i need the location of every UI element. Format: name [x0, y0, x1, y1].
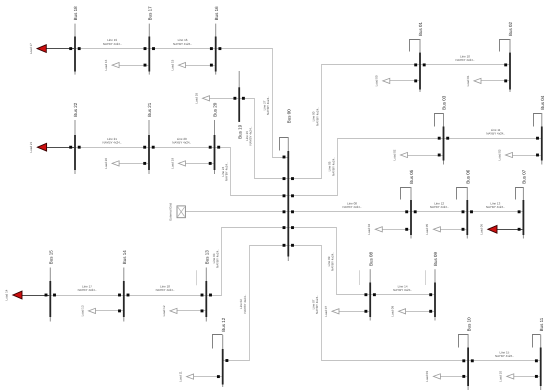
- svg-text:NAYBY 4x24..: NAYBY 4x24..: [249, 126, 253, 145]
- svg-text:Load 17: Load 17: [29, 43, 33, 54]
- svg-text:Load 04: Load 04: [367, 224, 371, 235]
- svg-text:NAYBY 4x24..: NAYBY 4x24..: [486, 205, 505, 209]
- svg-text:NAYBY 4x24..: NAYBY 4x24..: [430, 205, 449, 209]
- svg-text:NAYBY 4x24..: NAYBY 4x24..: [331, 157, 335, 176]
- svg-text:Bus 15: Bus 15: [49, 250, 54, 265]
- svg-text:Load 08: Load 08: [390, 306, 394, 317]
- svg-text:NAYBY 4x24..: NAYBY 4x24..: [456, 58, 475, 62]
- svg-text:Bus 03: Bus 03: [442, 95, 447, 110]
- svg-text:NAYBY 4x24..: NAYBY 4x24..: [172, 140, 191, 144]
- svg-text:NAYBY 4x24..: NAYBY 4x24..: [331, 252, 335, 271]
- svg-text:NAYBY 4x24..: NAYBY 4x24..: [393, 288, 412, 292]
- svg-text:NAYBY 4x24..: NAYBY 4x24..: [78, 288, 97, 292]
- svg-text:Load 20: Load 20: [104, 158, 108, 169]
- svg-text:External Grid: External Grid: [169, 203, 173, 221]
- svg-text:NAYBY 4x24..: NAYBY 4x24..: [103, 140, 122, 144]
- svg-text:Load 13: Load 13: [80, 305, 84, 316]
- svg-text:Load 10: Load 10: [499, 371, 503, 382]
- svg-text:Load 11: Load 11: [178, 371, 182, 382]
- svg-text:NAYBY 4x24..: NAYBY 4x24..: [216, 249, 220, 268]
- svg-text:Load 16: Load 16: [104, 59, 108, 70]
- svg-text:Bus 21: Bus 21: [147, 102, 152, 117]
- svg-text:Load 15: Load 15: [170, 59, 174, 70]
- svg-text:Bus 19: Bus 19: [237, 124, 242, 139]
- svg-text:Bus 11: Bus 11: [539, 317, 544, 331]
- svg-text:Bus 04: Bus 04: [540, 95, 545, 110]
- svg-text:Bus 09: Bus 09: [433, 251, 438, 266]
- svg-text:Load 02: Load 02: [392, 149, 396, 160]
- svg-text:Bus 10: Bus 10: [466, 317, 471, 332]
- svg-text:Load 21: Load 21: [29, 141, 33, 152]
- svg-text:Bus 00: Bus 00: [287, 109, 292, 124]
- svg-text:Bus 16: Bus 16: [214, 6, 219, 21]
- svg-text:Load 09: Load 09: [425, 371, 429, 382]
- svg-text:Bus 20: Bus 20: [213, 102, 218, 117]
- svg-text:Load 12: Load 12: [162, 305, 166, 316]
- svg-text:Load 19: Load 19: [170, 158, 174, 169]
- svg-text:Load 01: Load 01: [466, 75, 470, 86]
- svg-text:Bus 14: Bus 14: [122, 250, 127, 265]
- svg-text:NAYBY 4x24..: NAYBY 4x24..: [343, 205, 362, 209]
- svg-text:Bus 13: Bus 13: [205, 250, 210, 265]
- svg-text:NAYBY 4x24..: NAYBY 4x24..: [173, 42, 192, 46]
- svg-text:NAYBY 4x24..: NAYBY 4x24..: [225, 162, 229, 181]
- svg-text:NAYBY 4x24..: NAYBY 4x24..: [315, 107, 319, 126]
- svg-text:Bus 06: Bus 06: [466, 169, 471, 184]
- svg-text:Bus 02: Bus 02: [508, 21, 513, 36]
- svg-text:NAYBY 4x24..: NAYBY 4x24..: [156, 288, 175, 292]
- svg-text:Bus 17: Bus 17: [148, 6, 153, 21]
- svg-text:Load 18: Load 18: [194, 93, 198, 104]
- svg-text:Load 07: Load 07: [324, 306, 328, 317]
- svg-text:Load 05: Load 05: [425, 224, 429, 235]
- svg-text:NAYBY 4x24..: NAYBY 4x24..: [495, 354, 514, 358]
- svg-text:NAYBY 4x24..: NAYBY 4x24..: [315, 295, 319, 314]
- svg-text:Bus 22: Bus 22: [73, 102, 78, 117]
- svg-text:Bus 01: Bus 01: [418, 21, 423, 36]
- svg-text:Load 06: Load 06: [480, 224, 484, 235]
- svg-text:Load 00: Load 00: [375, 75, 379, 86]
- svg-text:Bus 05: Bus 05: [409, 169, 414, 184]
- svg-text:Bus 07: Bus 07: [522, 169, 527, 184]
- svg-text:Load 14: Load 14: [5, 289, 9, 300]
- svg-text:Bus 08: Bus 08: [368, 251, 373, 266]
- svg-text:Bus 18: Bus 18: [73, 6, 78, 21]
- svg-text:Bus 12: Bus 12: [221, 317, 226, 332]
- svg-text:Load 03: Load 03: [497, 149, 501, 160]
- svg-text:NAYBY 4x24..: NAYBY 4x24..: [486, 131, 505, 135]
- svg-text:NAYBY 4x24..: NAYBY 4x24..: [103, 42, 122, 46]
- svg-text:NAYBY 4x24..: NAYBY 4x24..: [266, 96, 270, 115]
- svg-text:NAYBY 4x24..: NAYBY 4x24..: [243, 294, 247, 313]
